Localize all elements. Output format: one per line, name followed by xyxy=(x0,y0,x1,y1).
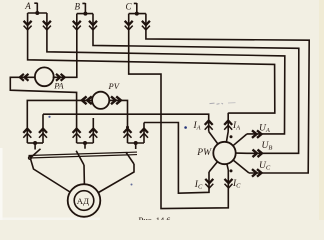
svg-text:В: В xyxy=(75,1,81,11)
wire U_B slant from PW xyxy=(236,152,247,154)
connector: pole3 right socket (up) xyxy=(140,129,148,138)
switch linkage double bar xyxy=(29,152,138,158)
connector: PV left plug (left) xyxy=(82,96,92,104)
connector: phase C left plug (down) xyxy=(125,21,133,30)
wire pole2 socket pair bar xyxy=(77,142,94,144)
polarity dot IA xyxy=(230,135,233,138)
speck blue 2 xyxy=(131,184,133,186)
wire phase A right drop to bus2 and U_A xyxy=(47,13,285,134)
wire IC left slant from PW xyxy=(209,162,217,172)
wire phase B right drop to bus3 and U_B xyxy=(93,14,299,154)
svg-text:АД: АД xyxy=(77,196,89,206)
wattmeter PW xyxy=(213,142,235,164)
wire voltmeter PV right to switch pole 3 socket xyxy=(109,100,128,143)
connector: PV right plug (right) xyxy=(111,96,121,104)
connector: PW UC plug (right) xyxy=(252,169,262,177)
wire L2 pole 3 right socket to wattmeter IC out xyxy=(144,123,209,194)
svg-text:PV: PV xyxy=(108,81,121,91)
switch QS pole 3 xyxy=(99,143,136,193)
wire pole1 socket pair bar xyxy=(27,142,43,144)
wire phase C splitter bar xyxy=(129,13,146,15)
wire phase B left drop to ammeter xyxy=(53,14,77,78)
switch QS pole 1 xyxy=(30,143,70,192)
motor AD outer circle xyxy=(68,184,101,217)
ammeter PA xyxy=(35,67,54,86)
motor AD inner circle xyxy=(74,191,94,211)
wire phase A left drop to bus1 xyxy=(28,13,275,113)
wire pole 2 right socket stub xyxy=(92,118,94,143)
connector: PA right plug (right) xyxy=(56,74,65,81)
wire IA left slant into PW xyxy=(209,132,218,145)
svg-text:PW: PW xyxy=(196,148,212,158)
junction node pole2 xyxy=(83,141,87,145)
wire voltmeter PV left to switch pole 1 socket xyxy=(27,100,92,143)
wire phase A splitter bar xyxy=(28,12,47,14)
switch pole1 pivot xyxy=(28,156,31,159)
connector: phase A left plug (down) xyxy=(24,21,32,30)
junction node phase A xyxy=(35,11,39,15)
connector: PW UA plug (right) xyxy=(252,130,262,138)
connector: phase A right plug (down) xyxy=(43,21,51,30)
polarity dot IC xyxy=(230,169,233,172)
node C phase terminal stub xyxy=(134,3,137,14)
junction node phase C xyxy=(135,12,139,16)
polarity dot IA left (blue speck) xyxy=(184,126,187,129)
connector: pole2 left socket (up) xyxy=(73,129,81,138)
junction node phase B xyxy=(83,12,87,16)
connector: PA left plug (left) xyxy=(20,74,29,81)
wire L1 from pole 1 right socket to wattmeter IA out xyxy=(43,114,209,143)
connector: PW IA right plug (up) xyxy=(224,121,232,130)
speck blue xyxy=(48,116,50,118)
connector: PW IC left plug (down) xyxy=(205,179,213,188)
node A phase terminal stub xyxy=(34,3,37,13)
node B phase terminal stub xyxy=(82,3,85,14)
wire phase C right drop to bus4 and U_C xyxy=(146,14,309,173)
junction node pole3 xyxy=(134,141,138,145)
connector: pole1 left socket (up) xyxy=(23,129,31,138)
connector: pole2 right socket (up) xyxy=(89,129,97,138)
connector: pole1 right socket (up) xyxy=(39,129,47,138)
wire U_C slant from PW xyxy=(233,160,249,173)
connector: PW IC right plug (down) xyxy=(225,179,233,188)
wire phase B splitter bar xyxy=(77,13,93,15)
svg-text:С: С xyxy=(126,1,133,11)
svg-text:А: А xyxy=(24,1,31,11)
svg-text:PA: PA xyxy=(53,81,64,91)
connector: PW UB plug (right) xyxy=(253,150,263,158)
wire pole3 socket pair bar xyxy=(128,142,145,144)
wire IC right slant from PW xyxy=(227,164,228,170)
junction node PV to pole3 xyxy=(126,126,129,129)
connector: phase B left plug (down) xyxy=(73,21,81,30)
connector: PW IA left plug (up) xyxy=(205,121,213,130)
connector: phase B right plug (down) xyxy=(89,21,97,30)
svg-text:Рис. 14.6.: Рис. 14.6. xyxy=(139,215,173,220)
wire U_A slant from PW xyxy=(233,134,247,146)
wire ammeter PA left loop to switch pole 2 socket xyxy=(10,77,76,143)
voltmeter PV xyxy=(92,92,109,109)
wire wattmeter IA right terminal up xyxy=(227,113,229,132)
connector: pole3 left socket (up) xyxy=(124,129,132,138)
faint pencil mark xyxy=(210,103,236,105)
wire phase C left drop to wattmeter current coil IC xyxy=(129,14,229,209)
connector: phase C right plug (down) xyxy=(142,21,150,30)
junction node pole1 xyxy=(33,141,37,145)
switch QS pole 2 xyxy=(76,143,85,185)
wire IA right slant into PW xyxy=(226,132,228,143)
